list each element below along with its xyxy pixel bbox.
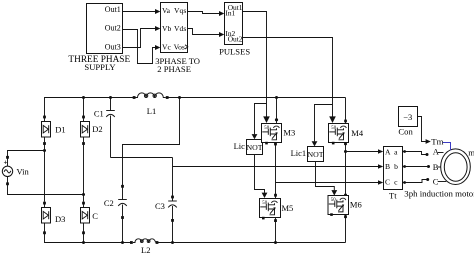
svg-text:D2: D2: [92, 124, 102, 134]
node Vin bottom junction: [82, 193, 85, 196]
svg-text:D1: D1: [55, 125, 65, 135]
wire top DC bus: [45, 98, 135, 118]
wire C3 branch vertical upper: [172, 158, 174, 198]
svg-text:M4: M4: [351, 128, 364, 138]
svg-text:D3: D3: [55, 214, 65, 224]
wire NOT Lic1 output to M6 gate: [316, 162, 335, 191]
svg-text:C3: C3: [155, 201, 165, 211]
svg-text:50: 50: [262, 201, 267, 206]
arrowhead M4 gate: [329, 116, 336, 123]
wire C2 to bottom bus: [122, 218, 124, 243]
wire Vin minus to D2 branch: [8, 185, 84, 195]
wire Out1 to Va: [123, 11, 156, 13]
arrowhead M6 gate: [331, 190, 337, 196]
node C3 bottom bus junction: [171, 241, 174, 244]
mosfet M5: [260, 199, 294, 220]
svg-text:C2: C2: [104, 198, 114, 208]
wire D4 to bottom bus: [83, 233, 85, 243]
svg-text:Out2: Out2: [105, 23, 121, 32]
svg-text:In1: In1: [225, 8, 235, 17]
svg-text:Out1: Out1: [105, 5, 121, 14]
wire M5 source to bottom bus: [275, 218, 277, 243]
wire M4 drain from top bus: [345, 98, 347, 124]
wire M3 drain from top bus: [276, 98, 278, 124]
arrowhead Vc input: [155, 45, 160, 50]
capacitor C1: [94, 98, 115, 158]
arrowhead NOT Lic input: [252, 134, 258, 139]
inductor L1: [133, 93, 169, 116]
svg-text:50: 50: [264, 126, 269, 131]
wire Con to Tm input: [417, 117, 426, 142]
node M3 drain junction: [275, 96, 278, 99]
diode D4 (label C): [81, 202, 99, 235]
svg-text:Vin: Vin: [17, 166, 30, 176]
svg-text:Con: Con: [398, 127, 413, 137]
wire phase B to motor block: [173, 166, 379, 168]
svg-text:m: m: [468, 147, 474, 157]
wire Vds to In2: [188, 29, 220, 35]
diode D1: [42, 116, 66, 145]
svg-text:2 PHASE: 2 PHASE: [157, 64, 191, 74]
wire C1 bottom to C3 branch: [111, 157, 173, 159]
svg-text:−3: −3: [403, 112, 412, 122]
node D4 bottom bus junction: [82, 241, 85, 244]
gate NOT Lic: [234, 140, 263, 155]
diode D3: [42, 202, 66, 235]
wire phase A to motor block: [346, 151, 379, 153]
wire D1 to D3: [44, 144, 46, 202]
svg-text:Lic: Lic: [234, 141, 246, 151]
diode D2: [81, 98, 103, 145]
wire M3 source to M5 drain: [275, 143, 277, 199]
wire Vin plus to D1 branch: [8, 151, 45, 157]
svg-text:Tt: Tt: [389, 191, 397, 201]
svg-text:B: B: [385, 162, 390, 171]
capacitor C2: [104, 185, 127, 219]
svg-text:Vds: Vds: [174, 24, 186, 33]
gate NOT Lic1: [291, 147, 324, 162]
wire phase C to motor block: [276, 182, 379, 184]
svg-text:Vc: Vc: [162, 42, 171, 51]
wire top DC bus right of L1: [167, 97, 345, 99]
svg-text:Tm: Tm: [431, 137, 443, 147]
wire Tm to motor (blue): [443, 143, 451, 151]
node D2 top junction: [82, 96, 85, 99]
svg-text:50: 50: [331, 198, 336, 203]
svg-text:A: A: [433, 147, 440, 157]
wire D3 to bottom bus: [45, 233, 132, 243]
svg-text:NOT: NOT: [246, 143, 262, 152]
mosfet M6: [328, 196, 362, 216]
node M3 drain port dot: [275, 118, 278, 121]
arrowhead M5 gate: [262, 193, 268, 198]
svg-text:L1: L1: [147, 106, 156, 116]
arrowhead Va input: [155, 9, 160, 14]
svg-text:M5: M5: [282, 203, 294, 213]
block Tt (three phase measurement): [384, 147, 403, 201]
svg-text:C: C: [385, 177, 390, 186]
arrowhead Vb input: [155, 26, 160, 31]
node Vin top junction: [43, 149, 46, 152]
svg-text:50: 50: [331, 126, 336, 131]
wire PULSES Out1 to M3 gate: [243, 12, 267, 117]
wire Tt c to motor C: [403, 180, 427, 183]
svg-text:NOT: NOT: [307, 150, 323, 159]
inductor L2: [130, 239, 158, 253]
svg-text:M3: M3: [283, 128, 295, 138]
svg-text:SUPPLY: SUPPLY: [84, 62, 115, 72]
svg-text:Vos: Vos: [174, 42, 185, 51]
svg-text:M6: M6: [350, 200, 362, 210]
svg-text:A: A: [385, 148, 391, 157]
svg-text:Vb: Vb: [162, 24, 171, 33]
wire Tt a to motor A: [403, 152, 427, 155]
node L-network junction: [178, 96, 181, 99]
svg-text:3ph induction motor: 3ph induction motor: [404, 189, 474, 199]
svg-text:Out2: Out2: [228, 34, 243, 43]
svg-text:C: C: [92, 211, 98, 221]
wire M6 source to bottom bus: [345, 215, 347, 243]
wire NOT Lic output to M5 gate: [255, 155, 265, 193]
voltage source Vin: [2, 156, 29, 185]
wire bottom bus right section: [157, 242, 346, 244]
svg-text:L2: L2: [141, 245, 150, 253]
wire Vqs to In1: [188, 12, 220, 14]
svg-text:Lic1: Lic1: [291, 148, 307, 158]
arrowhead M3 gate: [263, 116, 270, 123]
arrowhead In2: [219, 32, 224, 37]
mosfet M3: [262, 124, 296, 145]
wire branch to NOT Lic input: [255, 104, 267, 135]
block THREE PHASE SUPPLY: [68, 4, 130, 72]
wire D2 to D4: [83, 144, 85, 202]
svg-text:Out3: Out3: [105, 43, 121, 52]
wire M4 source to M6 drain: [345, 143, 347, 196]
svg-text:Va: Va: [162, 6, 171, 15]
wire branch to NOT Lic1 input: [315, 105, 333, 142]
port mark Vos (unconnected output): [185, 45, 188, 49]
arrowhead In1: [219, 11, 224, 16]
wire Out3 to Vb (up-jog route): [123, 29, 156, 48]
wire Tt b to motor B: [403, 166, 428, 168]
svg-text:+: +: [3, 157, 7, 166]
node phase A junction: [344, 150, 347, 153]
wire PULSES Out2 to M4 gate: [243, 38, 333, 117]
node C2 bottom bus junction: [121, 241, 124, 244]
svg-text:b: b: [394, 162, 398, 171]
svg-text:C1: C1: [94, 109, 104, 119]
arrowhead NOT Lic1 input: [312, 141, 318, 146]
mosfet M4: [329, 124, 364, 145]
wire top bus tap down to C2: [123, 98, 180, 187]
node C1 top junction: [109, 96, 112, 99]
svg-text:Vqs: Vqs: [174, 6, 186, 15]
svg-text:PULSES: PULSES: [219, 46, 250, 56]
3ph induction motor: [404, 147, 474, 199]
wire C3 to bottom bus: [172, 221, 174, 243]
block 3PHASE TO 2 PHASE: [155, 3, 200, 74]
capacitor C3: [155, 196, 177, 222]
wire Out2 to Vc (down-around route): [123, 30, 156, 64]
block PULSES: [219, 3, 250, 57]
block Con (constant -3): [398, 107, 417, 137]
